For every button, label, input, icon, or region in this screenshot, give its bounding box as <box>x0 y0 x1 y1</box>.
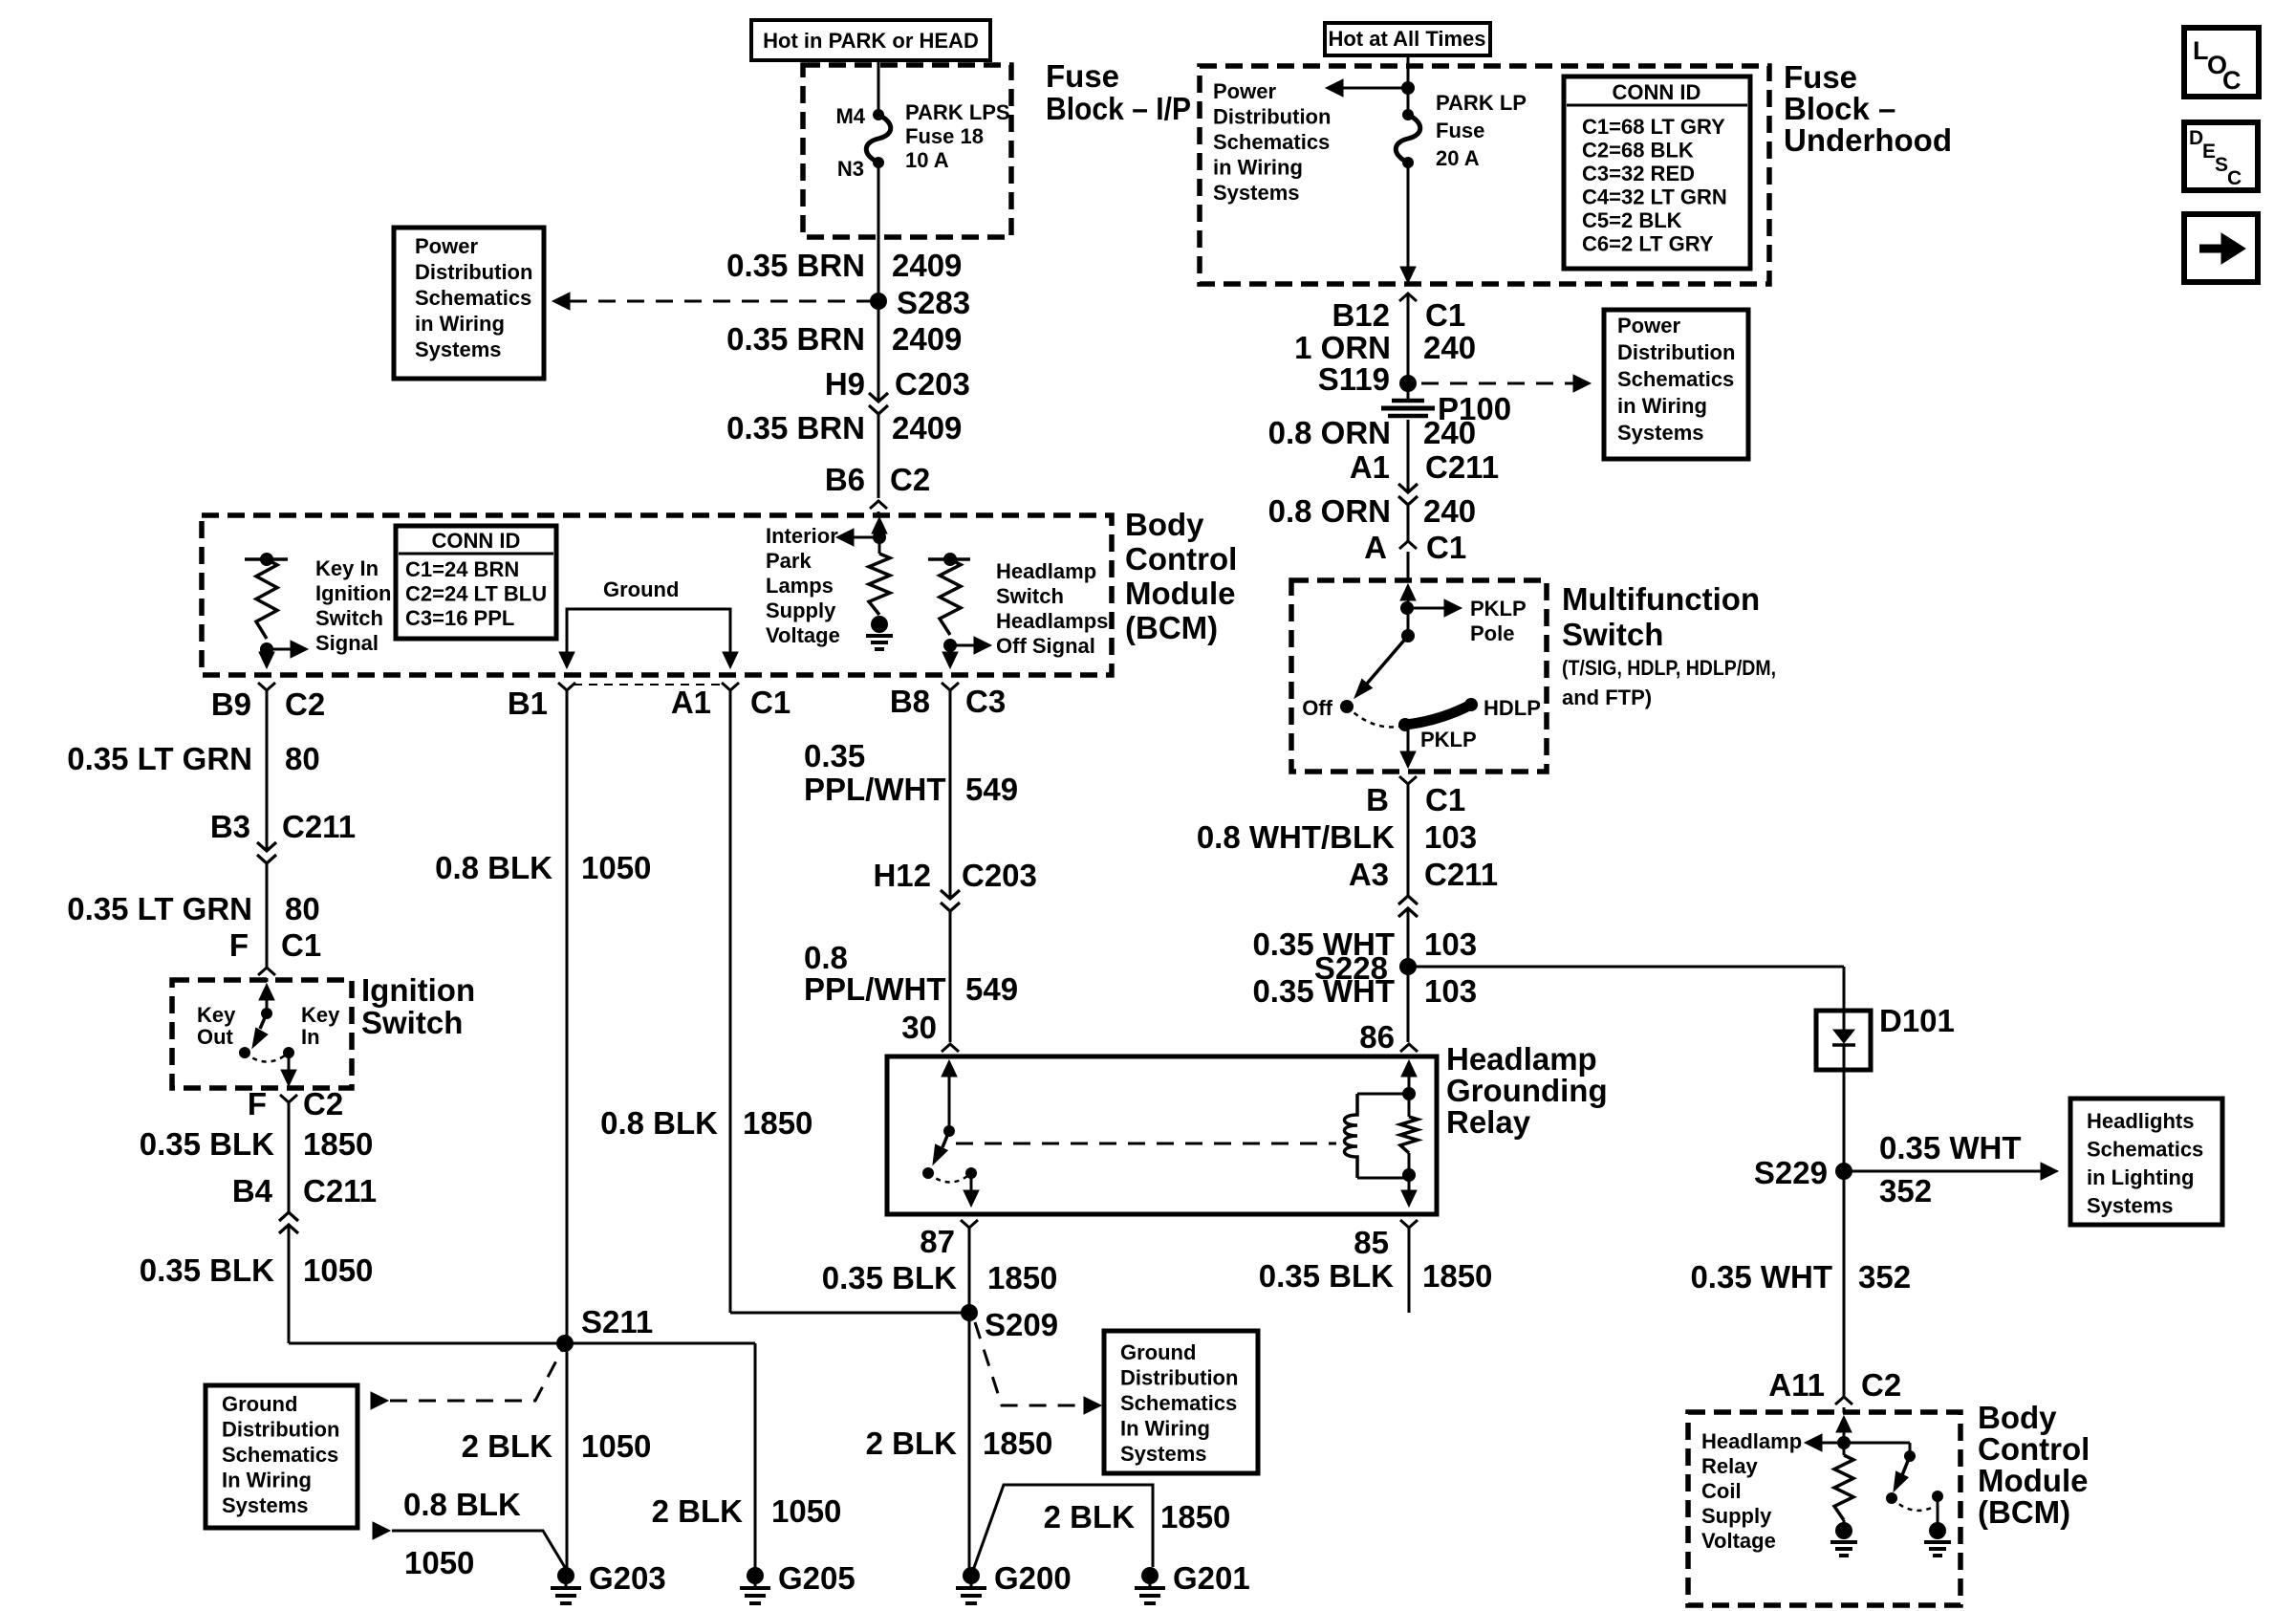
svg-text:C211: C211 <box>303 1173 377 1208</box>
connector A1 C1 <box>722 683 739 690</box>
diode D101 box <box>1816 1011 1871 1070</box>
svg-text:D101: D101 <box>1879 1003 1955 1038</box>
svg-text:HDLP: HDLP <box>1484 696 1541 720</box>
svg-text:B: B <box>1366 782 1389 817</box>
ref box: Power Distribution Schematics in Wiring Systems (left) <box>394 228 544 379</box>
BCM2 entry arrow <box>1836 1416 1852 1432</box>
BCM2 switch branch <box>1844 1442 1910 1445</box>
wire: C211 to multifunction switch <box>1407 505 1410 541</box>
HDLP contact and wiper arc <box>1464 698 1478 711</box>
svg-text:A1: A1 <box>1350 449 1390 485</box>
svg-text:C211: C211 <box>282 809 356 844</box>
label box: Hot at All Times <box>1325 23 1490 55</box>
svg-text:G203: G203 <box>589 1560 666 1596</box>
BCM2 internal ground right <box>1929 1522 1946 1539</box>
svg-text:80: 80 <box>285 891 320 926</box>
node S229 <box>1835 1163 1852 1180</box>
BCM2 switch arm <box>1902 1456 1910 1475</box>
ref arrow S229 to headlights schematics <box>1844 1170 2042 1173</box>
ref box: Ground Distribution Schematics In Wiring Systems (left) <box>206 1385 357 1528</box>
wire: fuse to underhood exit <box>1407 163 1410 271</box>
fuse F18 terminal M4 <box>873 109 884 120</box>
LOC legend box <box>2184 28 2259 97</box>
svg-text:Key: Key <box>301 1003 340 1027</box>
wire: B9 to C211 <box>266 690 269 851</box>
grommet P100 <box>1392 399 1424 403</box>
svg-text:240: 240 <box>1423 415 1476 450</box>
BCM internal ground <box>871 616 888 633</box>
svg-text:2409: 2409 <box>892 248 962 283</box>
svg-text:1850: 1850 <box>1160 1499 1230 1535</box>
wire: C211 to S228 <box>1407 908 1410 967</box>
svg-text:240: 240 <box>1423 493 1476 529</box>
svg-text:S209: S209 <box>985 1307 1058 1342</box>
BCM2 contact left <box>1886 1492 1897 1504</box>
svg-text:C1: C1 <box>750 685 791 720</box>
fuse PARK LP lower terminal <box>1402 157 1414 168</box>
node S228 <box>1399 958 1417 975</box>
svg-text:F: F <box>229 927 249 963</box>
svg-text:Fuse: Fuse <box>1046 58 1119 94</box>
svg-text:Hot at All Times: Hot at All Times <box>1328 27 1485 51</box>
svg-text:C1: C1 <box>1425 782 1465 817</box>
relay entry arrow pin 30 <box>942 1060 957 1077</box>
svg-text:1850: 1850 <box>743 1105 812 1141</box>
svg-text:0.35 WHT: 0.35 WHT <box>1690 1259 1832 1295</box>
svg-text:2 BLK: 2 BLK <box>866 1426 958 1461</box>
wire: B1 to S211 to G203 <box>566 690 569 1576</box>
svg-text:E: E <box>2202 141 2216 163</box>
svg-text:1050: 1050 <box>581 850 651 885</box>
relay contact closed to 87 <box>965 1167 977 1179</box>
PKLP contact <box>1398 718 1412 731</box>
svg-text:549: 549 <box>965 772 1018 807</box>
relay coil entry pin 86 <box>1401 1060 1417 1077</box>
BCM exit arrow to B8 <box>949 645 952 654</box>
wire: A1 down to S209 <box>729 690 732 1313</box>
fuse block underhood dashed box <box>1200 66 1769 284</box>
wire: C203 to relay pin 30 <box>949 911 952 1042</box>
svg-text:B3: B3 <box>210 809 250 844</box>
svg-text:1050: 1050 <box>581 1428 651 1464</box>
svg-text:Hot in PARK or HEAD: Hot in PARK or HEAD <box>763 29 979 53</box>
wire: G200 to G201 <box>971 1485 1153 1576</box>
node S211 <box>556 1335 574 1352</box>
svg-text:240: 240 <box>1423 330 1476 365</box>
svg-text:PPL/WHT: PPL/WHT <box>804 772 945 807</box>
wire: Hot in PARK feed to fuse 18 <box>877 60 880 115</box>
svg-text:1050: 1050 <box>303 1252 373 1288</box>
svg-text:A: A <box>1364 530 1387 565</box>
svg-text:2 BLK: 2 BLK <box>1044 1499 1136 1535</box>
relay contact open <box>922 1167 934 1179</box>
dashed ref line S211 to ground distribution box <box>371 1392 388 1409</box>
arrow to interior park lamps text <box>850 536 879 539</box>
ignition switch output to F C2 <box>288 1053 291 1071</box>
svg-text:B9: B9 <box>211 686 251 722</box>
svg-text:0.35 BRN: 0.35 BRN <box>726 410 865 446</box>
relay switch output to 87 <box>970 1173 973 1190</box>
svg-text:S211: S211 <box>581 1304 653 1339</box>
svg-text:C1: C1 <box>1425 297 1465 333</box>
multifunction output wire <box>1407 729 1410 751</box>
wire: C211 to ignition switch <box>266 863 269 968</box>
CONN ID table (underhood) <box>1564 76 1750 269</box>
svg-text:1850: 1850 <box>303 1126 373 1162</box>
node S119 <box>1399 375 1417 392</box>
wire: F C2 down to B4 <box>288 1102 291 1212</box>
svg-text:85: 85 <box>1354 1225 1389 1260</box>
svg-text:103: 103 <box>1424 973 1477 1009</box>
ignition switch entry arrow <box>259 984 274 1000</box>
connector B9 C2 <box>258 683 275 690</box>
svg-text:0.35 BRN: 0.35 BRN <box>726 248 865 283</box>
svg-text:A1: A1 <box>671 685 711 720</box>
wire: D101 to S229 <box>1843 1070 1846 1171</box>
svg-text:C2: C2 <box>303 1086 343 1121</box>
ground G201 <box>1141 1567 1159 1584</box>
BCM resistor: headlamp switch off signal <box>940 559 961 635</box>
ref line 0.8 BLK 1050 to G203 <box>373 1522 390 1539</box>
svg-text:1850: 1850 <box>1422 1258 1492 1294</box>
wire: B12 to S119 <box>1407 294 1410 383</box>
BCM resistor: interior park lamps <box>869 554 890 615</box>
svg-text:N3: N3 <box>837 157 864 181</box>
svg-text:0.8 BLK: 0.8 BLK <box>600 1105 718 1141</box>
wire: P100 to C211 <box>1407 420 1410 492</box>
BCM interior park lamps supply node <box>872 517 887 533</box>
svg-text:2409: 2409 <box>892 321 962 357</box>
wire: B8 to C203 <box>949 690 952 899</box>
svg-text:0.35 LT GRN: 0.35 LT GRN <box>67 741 252 776</box>
ref box: Headlights Schematics in Lighting Systems <box>2070 1099 2222 1225</box>
svg-text:Off: Off <box>1302 696 1332 720</box>
headlamp grounding relay box <box>887 1056 1437 1214</box>
svg-text:C203: C203 <box>962 858 1037 893</box>
svg-text:In: In <box>301 1025 320 1049</box>
label box: Hot in PARK or HEAD <box>751 20 990 60</box>
ground G205 <box>747 1567 764 1584</box>
svg-text:InteriorParkLampsSupplyVoltage: InteriorParkLampsSupplyVoltage <box>766 524 840 647</box>
multifunction switch arm <box>1367 636 1408 684</box>
svg-text:PKLP: PKLP <box>1420 728 1477 751</box>
fuse block I/P dashed box <box>803 65 1011 237</box>
dashed ref line S283 to power distribution box <box>552 293 570 310</box>
dashed ref line S209 to ground distribution box <box>975 1322 1086 1405</box>
svg-text:B6: B6 <box>825 462 865 497</box>
wire: S229 to A11 BCM <box>1843 1171 1846 1397</box>
fuse PARK LP 20A <box>1396 115 1420 163</box>
svg-text:1050: 1050 <box>771 1493 841 1529</box>
svg-text:87: 87 <box>920 1224 955 1259</box>
relay actuation dashed link <box>956 1143 1336 1145</box>
svg-text:2409: 2409 <box>892 410 962 446</box>
svg-text:Block – I/P: Block – I/P <box>1046 91 1191 126</box>
wire: S119 to P100 <box>1407 383 1410 401</box>
svg-text:C: C <box>2222 66 2242 95</box>
svg-text:1 ORN: 1 ORN <box>1294 330 1391 365</box>
dashed throw arc <box>245 1053 289 1062</box>
ignition switch pivot <box>261 1008 272 1019</box>
connector pair dashes B1-A1 <box>574 684 724 686</box>
svg-text:S283: S283 <box>897 285 970 320</box>
svg-text:A11: A11 <box>1768 1367 1825 1403</box>
svg-text:D: D <box>2189 127 2203 149</box>
svg-text:0.35 BLK: 0.35 BLK <box>1259 1258 1394 1294</box>
svg-text:G205: G205 <box>778 1560 856 1596</box>
svg-text:0.8 ORN: 0.8 ORN <box>1268 415 1391 450</box>
svg-text:0.8 ORN: 0.8 ORN <box>1268 493 1391 529</box>
BCM headlamp switch resistor node bar <box>928 557 970 561</box>
svg-text:C2: C2 <box>285 686 325 722</box>
wire: S228 branch to D101 <box>1408 966 1844 969</box>
svg-text:G201: G201 <box>1173 1560 1250 1596</box>
wire: hot feed into underhood block <box>1407 55 1410 115</box>
svg-text:B8: B8 <box>890 684 930 719</box>
svg-text:C: C <box>2227 167 2242 189</box>
arrow legend box <box>2184 214 2258 282</box>
wire: S228 to relay pin 86 <box>1407 967 1410 1042</box>
svg-text:B4: B4 <box>232 1173 273 1208</box>
svg-text:C1=68 LT GRYC2=68 BLKC3=32 RED: C1=68 LT GRYC2=68 BLKC3=32 REDC4=32 LT G… <box>1582 115 1727 256</box>
ground G200 <box>963 1567 980 1584</box>
svg-text:C211: C211 <box>1424 857 1498 892</box>
ignition switch dashed box <box>172 980 352 1088</box>
svg-text:S: S <box>2215 154 2228 176</box>
relay switch arm <box>942 1131 949 1147</box>
svg-text:0.8 BLK: 0.8 BLK <box>435 850 552 885</box>
off contact <box>1340 700 1354 713</box>
svg-text:0.35 BLK: 0.35 BLK <box>822 1260 957 1295</box>
connector F C2 below ignition switch <box>280 1095 297 1102</box>
wire: fuse 18 to S283 <box>877 163 880 301</box>
svg-text:352: 352 <box>1858 1259 1911 1295</box>
svg-text:C1: C1 <box>1426 530 1466 565</box>
svg-text:B12: B12 <box>1332 297 1390 333</box>
connector B1 C1 <box>558 683 575 690</box>
connector B C1 below multifunction switch <box>1399 776 1417 784</box>
svg-text:CONN ID: CONN ID <box>432 529 521 553</box>
DESC legend box <box>2184 122 2258 190</box>
svg-text:C211: C211 <box>1425 449 1499 485</box>
svg-text:C2: C2 <box>1861 1367 1901 1403</box>
svg-text:2 BLK: 2 BLK <box>462 1428 553 1464</box>
diode D101 symbol <box>1843 1011 1846 1034</box>
dashed ref line S119 to power distribution box <box>1421 382 1575 385</box>
svg-text:HeadlampSwitchHeadlampsOff Sig: HeadlampSwitchHeadlampsOff Signal <box>996 559 1108 658</box>
svg-text:103: 103 <box>1424 926 1477 962</box>
ground G203 <box>557 1567 574 1584</box>
ref box: Power Distribution Schematics in Wiring Systems (right) <box>1604 310 1748 459</box>
key out contact <box>239 1047 250 1058</box>
svg-text:B1: B1 <box>508 686 548 721</box>
svg-text:0.35 WHT: 0.35 WHT <box>1879 1130 2022 1165</box>
BCM2 node + headlamp arrow <box>1837 1436 1851 1449</box>
svg-text:Ignition: Ignition <box>361 972 475 1008</box>
relay coil branch <box>1357 1093 1409 1096</box>
svg-text:F: F <box>248 1086 267 1121</box>
svg-text:Out: Out <box>197 1025 234 1049</box>
BCM node + signal arrow <box>260 642 273 656</box>
svg-text:86: 86 <box>1359 1019 1395 1055</box>
svg-text:Switch: Switch <box>361 1005 463 1040</box>
svg-text:2 BLK: 2 BLK <box>652 1493 744 1529</box>
svg-text:0.8 WHT/BLK: 0.8 WHT/BLK <box>1197 819 1395 855</box>
relay switch pivot <box>943 1125 955 1137</box>
node to PKLP pole arrow <box>1400 601 1414 615</box>
wire: 85 to S209 <box>1408 1228 1411 1313</box>
svg-text:549: 549 <box>965 971 1018 1007</box>
BCM2 dashed throw arc <box>1892 1498 1934 1511</box>
svg-text:C2: C2 <box>890 462 930 497</box>
svg-text:H9: H9 <box>825 366 865 402</box>
svg-text:0.35 BRN: 0.35 BRN <box>726 321 865 357</box>
svg-text:S229: S229 <box>1754 1155 1828 1190</box>
svg-text:103: 103 <box>1424 819 1477 855</box>
ignition switch arm to key out <box>260 1013 267 1029</box>
fuse F18 terminal N3 <box>873 157 884 168</box>
body control module BCM dashed box <box>202 515 1112 675</box>
BCM2 switch pivot <box>1904 1450 1916 1462</box>
svg-text:C3: C3 <box>965 684 1006 719</box>
node to power distribution arrow <box>1401 81 1415 95</box>
relay internal resistor <box>1408 1094 1411 1117</box>
BCM node + off signal arrow <box>943 639 957 652</box>
svg-text:C203: C203 <box>895 366 970 402</box>
svg-text:CONN ID: CONN ID <box>1613 80 1701 104</box>
svg-text:A3: A3 <box>1349 857 1389 892</box>
relay exit to pin 85 <box>1408 1175 1411 1190</box>
wire: C203 to B6 BCM <box>877 414 880 498</box>
multifunction pivot <box>1401 629 1415 642</box>
wire: 87 to S209 <box>968 1228 971 1576</box>
svg-text:Ground: Ground <box>603 577 679 601</box>
svg-text:(T/SIG, HDLP, HDLP/DM,: (T/SIG, HDLP, HDLP/DM, <box>1562 656 1776 680</box>
svg-text:G200: G200 <box>994 1560 1072 1596</box>
dashed throw arc <box>1347 707 1403 727</box>
BCM key-in resistor node bar <box>245 557 288 561</box>
svg-text:0.35 BLK: 0.35 BLK <box>140 1126 274 1162</box>
CONN ID table (BCM) <box>396 526 556 639</box>
wire: S283 to C203 <box>877 301 880 402</box>
node S209 <box>961 1304 978 1321</box>
BCM2 internal ground left <box>1843 1520 1846 1527</box>
svg-text:1850: 1850 <box>983 1426 1052 1461</box>
svg-text:Switch: Switch <box>1562 617 1663 652</box>
svg-text:S119: S119 <box>1318 361 1390 397</box>
svg-text:PPL/WHT: PPL/WHT <box>804 971 945 1007</box>
fuse PARK LP terminal <box>1402 109 1414 120</box>
svg-text:M4: M4 <box>835 104 865 128</box>
wire: B4 to S211 <box>288 1225 291 1343</box>
BCM2 contact right with stub <box>1932 1491 1943 1502</box>
svg-text:H12: H12 <box>873 858 931 893</box>
wire: B to C211 <box>1407 784 1410 896</box>
BCM exit arrow to B9 <box>266 649 269 654</box>
svg-text:80: 80 <box>285 741 320 776</box>
svg-text:and FTP): and FTP) <box>1562 686 1652 709</box>
wire: S211 extension to G205 <box>565 1342 755 1345</box>
svg-text:0.35 WHT: 0.35 WHT <box>1252 973 1395 1009</box>
svg-text:30: 30 <box>901 1010 937 1045</box>
svg-text:0.35 BLK: 0.35 BLK <box>140 1252 274 1288</box>
svg-text:1050: 1050 <box>404 1545 474 1580</box>
svg-text:Multifunction: Multifunction <box>1562 581 1760 617</box>
node S283 <box>870 293 887 310</box>
body control module BCM dashed box (right) <box>1688 1412 1960 1605</box>
connector B12 C1 <box>1399 294 1417 301</box>
key in contact <box>283 1047 294 1058</box>
connector B8 C3 <box>942 683 959 690</box>
svg-text:C1: C1 <box>281 927 321 963</box>
svg-text:0.8: 0.8 <box>804 940 848 975</box>
BCM resistor: key in ignition switch signal <box>256 559 277 639</box>
BCM2 resistor headlamp relay coil <box>1834 1455 1853 1520</box>
relay throw dashed arc <box>928 1173 971 1183</box>
svg-text:352: 352 <box>1879 1173 1932 1208</box>
svg-text:Key: Key <box>197 1003 236 1027</box>
svg-text:1850: 1850 <box>987 1260 1057 1295</box>
svg-text:0.8 BLK: 0.8 BLK <box>403 1487 521 1522</box>
multifunction switch dashed box <box>1291 580 1547 772</box>
svg-text:0.35: 0.35 <box>804 738 865 773</box>
svg-text:0.35 LT GRN: 0.35 LT GRN <box>67 891 252 926</box>
fuse F18 PARK LPS 10A <box>866 115 891 163</box>
multifunction entry arrow <box>1400 584 1416 600</box>
ref box: Ground Distribution Schematics In Wiring Systems (right) <box>1104 1331 1258 1473</box>
